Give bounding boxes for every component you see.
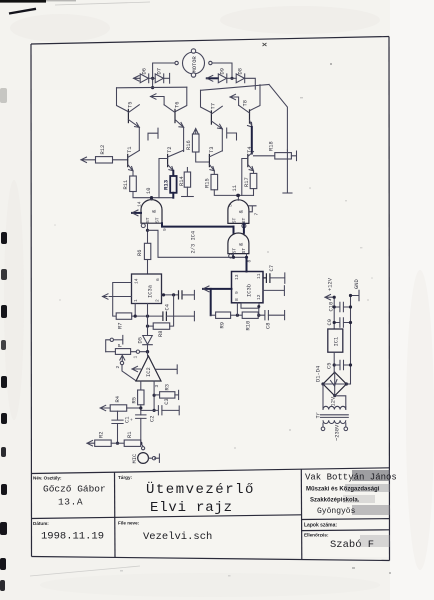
svg-text:1: 1 [133, 356, 139, 359]
stub bar right of mic [158, 454, 160, 462]
svg-text:T5: T5 [128, 102, 134, 108]
node right pin [162, 293, 165, 296]
gate B pin 7 stub [249, 206, 256, 212]
node ic3b pin riser [236, 314, 239, 317]
svg-text:R8: R8 [158, 331, 164, 337]
wire D7 to stub [164, 77, 170, 79]
capacitor C4 [163, 304, 171, 321]
svg-text:11: 11 [256, 273, 262, 279]
node diode left [151, 77, 154, 80]
wire IC1 to C5 node [333, 352, 335, 372]
mic right terminal [152, 457, 155, 460]
primary terminal left [321, 427, 325, 431]
arrow left of R12 [81, 157, 96, 162]
wire node to apex [147, 352, 149, 356]
transformer Tr [316, 396, 349, 423]
wire cap to stub [182, 294, 194, 296]
svg-text:Név. Osztály:: Név. Osztály: [33, 476, 62, 481]
svg-text:C7: C7 [269, 265, 275, 271]
potentiometer P [106, 344, 131, 362]
left bridge rail [117, 86, 187, 89]
wire T8 collector arrow [230, 94, 239, 105]
svg-text:D7: D7 [157, 68, 163, 74]
wire T7 emitter down [221, 129, 223, 151]
node rail left [151, 86, 154, 89]
wire D5 to opamp node [147, 345, 149, 352]
bus under IC3a [132, 315, 163, 317]
bridge rectifier D1-D4 [316, 366, 349, 397]
wire T4 to R18 [254, 155, 275, 157]
capacitor C8 [259, 311, 272, 330]
wire IC3b pin12 [263, 289, 284, 291]
svg-text:R15: R15 [204, 178, 210, 188]
wire R16 to T3 base [196, 152, 210, 162]
svg-text:Gőcző Gábor: Gőcző Gábor [43, 484, 106, 495]
wire R4 to chain [127, 407, 141, 409]
psu left rail [333, 297, 335, 329]
svg-text:R12: R12 [100, 145, 106, 155]
gate A top pin [151, 198, 153, 200]
svg-text:R3: R3 [165, 384, 171, 390]
wire IC3a left pin arrow [103, 294, 132, 299]
wire rail left drop right half [201, 90, 212, 112]
svg-text:5: 5 [228, 204, 234, 207]
svg-text:File neve:: File neve: [118, 521, 140, 526]
wire R14 to gnd stub [186, 187, 188, 196]
wire T5 emitter down [138, 127, 140, 150]
nand gate U4B [228, 200, 249, 224]
wire branch to right drop [148, 230, 247, 257]
svg-text:+: + [243, 234, 248, 237]
riser subbox [258, 308, 260, 315]
svg-text:C5: C5 [327, 363, 333, 369]
psu right rail [350, 296, 352, 385]
transistor T6 [164, 102, 184, 128]
wire T6 collector arrow [151, 94, 165, 105]
right bridge rail [201, 85, 270, 91]
node gate C out right [245, 256, 248, 259]
svg-text:R18: R18 [269, 141, 275, 151]
transistor T7 [211, 103, 223, 129]
svg-text:9: 9 [234, 291, 240, 294]
title block [31, 468, 397, 560]
stub inside left bridge [148, 128, 158, 140]
svg-text:R11: R11 [123, 180, 129, 190]
capacitor C4b [179, 290, 183, 299]
node under gate A [146, 229, 149, 232]
svg-text:2: 2 [115, 366, 121, 369]
svg-text:T7: T7 [211, 103, 217, 109]
bold arrow left of IC3b [203, 288, 232, 290]
svg-text:13.A: 13.A [58, 497, 83, 508]
drawing frame [31, 37, 390, 561]
wire D5 chain [147, 304, 149, 336]
svg-text:12V: 12V [331, 396, 337, 406]
node gate C out left [232, 256, 235, 259]
svg-text:ST: ST [154, 217, 160, 223]
frame left edge [30, 44, 33, 557]
stub bar right of C3 [178, 406, 180, 415]
wire to stub [114, 339, 123, 341]
gate A left arrow bold [132, 212, 141, 214]
svg-text:2: 2 [155, 299, 161, 302]
svg-text:R17: R17 [244, 177, 250, 187]
svg-text:Elvi rajz: Elvi rajz [150, 500, 233, 516]
svg-text:GND: GND [354, 279, 360, 289]
wire R9 to R10 [231, 314, 243, 316]
svg-text:14: 14 [133, 278, 139, 284]
stub bar pin12 [283, 286, 285, 296]
wire C1 down [117, 424, 119, 444]
node gnd [349, 294, 352, 297]
wire T8 emitter down bold [251, 127, 253, 154]
arrow left of D6 [134, 76, 141, 81]
svg-text:8: 8 [234, 298, 240, 301]
wire bridge to transformer right [335, 396, 346, 407]
node opamp top [146, 350, 149, 353]
wire long vertical over R18 [286, 150, 288, 193]
stub bar right of C7 [284, 273, 286, 283]
stub right of R18 [291, 151, 296, 161]
svg-text:D9: D9 [220, 68, 226, 74]
svg-text:Dátum:: Dátum: [33, 521, 49, 526]
wire T4 emitter to R17 [253, 171, 255, 174]
svg-text:C4: C4 [165, 304, 171, 310]
svg-text:D8: D8 [237, 68, 243, 74]
resistor R11 [123, 176, 137, 192]
wire T6 emitter down [183, 127, 185, 151]
wire D6-D7 [149, 77, 156, 79]
flip-flop IC3a [132, 274, 162, 304]
arrow above R16 [193, 129, 198, 135]
wire T4 base drop [242, 159, 248, 196]
svg-text:P: P [118, 344, 124, 347]
svg-text:R6: R6 [137, 250, 143, 256]
wire to R9 [211, 314, 216, 316]
svg-text:10: 10 [146, 188, 152, 194]
gate B top pin [237, 195, 239, 200]
svg-text:9: 9 [162, 228, 168, 231]
capacitor C7 [263, 265, 275, 283]
GND stub [351, 290, 360, 300]
svg-text:T1: T1 [127, 147, 133, 153]
primary leads [323, 423, 346, 427]
resistor R3 [154, 384, 175, 398]
wire gate B to gate C right [243, 223, 245, 233]
wire bridge right to rail [346, 383, 350, 385]
svg-text:ST: ST [145, 217, 151, 223]
svg-text:D6: D6 [141, 68, 147, 74]
IC3b sub box [241, 303, 259, 308]
wire motor right [212, 63, 232, 78]
terminal circle upper [110, 338, 113, 341]
svg-text:IC1: IC1 [334, 337, 340, 347]
arrow left of D9 [207, 77, 218, 79]
svg-text:C8: C8 [266, 323, 272, 329]
motor M [183, 49, 205, 77]
svg-text:MIC: MIC [132, 454, 138, 464]
svg-text:Lapok száma:: Lapok száma: [304, 523, 337, 529]
potentiometer P upper terminal [106, 340, 110, 352]
secondary leads [323, 407, 346, 410]
svg-text:D5: D5 [137, 337, 143, 343]
node 11 dot [236, 194, 239, 197]
mic terminal circle top [142, 447, 145, 450]
stub bar right of opamp [176, 365, 178, 374]
node +12 [333, 296, 336, 299]
opamp left arrow [132, 366, 141, 371]
svg-text:11: 11 [232, 185, 238, 191]
resistor R13 bold [163, 171, 177, 198]
divider name/subject [114, 472, 117, 557]
svg-text:Vak Bottyán János: Vak Bottyán János [305, 473, 397, 483]
capacitor C3 [154, 398, 170, 415]
node R4 chain [139, 406, 142, 409]
op-amp IC2 [136, 356, 161, 381]
svg-text:C9: C9 [327, 319, 333, 325]
svg-text:T8: T8 [242, 100, 248, 106]
node R8 left [146, 325, 149, 328]
resistor R16 [186, 134, 199, 152]
wire R3 to stub [175, 394, 179, 396]
svg-text:6: 6 [155, 278, 161, 281]
wire rail right drop [175, 87, 186, 111]
svg-text:R1: R1 [127, 432, 133, 438]
resistor R7 [116, 313, 132, 329]
transistor T3 [209, 147, 223, 171]
capacitor C10 [329, 302, 353, 312]
node 10 dot [150, 196, 153, 199]
stub bar right of R3 [178, 390, 180, 399]
resistor R5 [132, 390, 145, 405]
opamp right wire [156, 368, 177, 370]
capacitor C5 [327, 360, 353, 369]
node subbox [257, 305, 260, 308]
svg-text:IC2: IC2 [146, 367, 152, 377]
capacitor C2 [130, 415, 156, 422]
bold wire gate A to gates BC [162, 223, 234, 226]
wire wiper to opamp input [122, 365, 136, 381]
resistor R6 [137, 243, 151, 259]
svg-text:ST: ST [241, 217, 247, 223]
node diode right [230, 77, 233, 80]
svg-text:7: 7 [254, 213, 260, 216]
wire mic to stub [149, 457, 160, 459]
stub bar right of D7 [169, 73, 171, 83]
wire P to node [131, 351, 148, 353]
wire C3 to stub [162, 409, 179, 411]
svg-text:R16: R16 [186, 140, 192, 150]
svg-text:R4: R4 [115, 396, 121, 402]
frame bottom edge [32, 557, 390, 561]
transistor T4 [247, 147, 253, 171]
wire D8 to right rail [245, 78, 256, 89]
resistor R8 [153, 323, 170, 337]
wire motor left [153, 63, 175, 88]
resistor R2 [95, 432, 112, 447]
transistor T2 [167, 147, 184, 171]
+12V arrow [325, 295, 334, 300]
node R8 tap [172, 293, 175, 296]
resistor R18 [269, 141, 292, 159]
wire R15 to node 11 bus [214, 190, 253, 196]
transistor T1 [127, 147, 139, 171]
resistor R14 [179, 168, 191, 188]
wire C7 to stub [270, 277, 285, 279]
wire bridge to transformer left [322, 384, 324, 407]
svg-text:+: + [130, 418, 135, 421]
node D5 chain on bus [146, 315, 149, 318]
resistor R15 [204, 174, 217, 189]
arrow left of R4 [100, 405, 110, 410]
node R10 right [257, 314, 260, 317]
svg-text:Ellenőrzés:: Ellenőrzés: [304, 533, 329, 538]
svg-text:T3: T3 [209, 147, 215, 153]
wire C8 to stub [268, 314, 284, 316]
capacitor C9 [327, 318, 352, 327]
resistor R12 [96, 145, 113, 163]
motor left terminal [175, 61, 178, 64]
node C5 [333, 363, 336, 366]
wire R6 to IC3a [147, 260, 149, 275]
svg-text:1: 1 [133, 299, 139, 302]
node C1 bottom [116, 442, 119, 445]
nand gate U4A [141, 200, 162, 224]
svg-text:T2: T2 [167, 147, 173, 153]
wire C2 down [141, 418, 143, 446]
wire R8 left to D5 chain [148, 325, 154, 327]
svg-text:~230V: ~230V [335, 424, 341, 441]
svg-text:3: 3 [154, 385, 160, 388]
node R3 [153, 394, 156, 397]
svg-text:C1: C1 [125, 417, 131, 423]
wire R2 to R1 [111, 442, 124, 444]
node C3 [153, 409, 156, 412]
gnd stub under R14 [182, 196, 194, 198]
resistor R9 [216, 312, 231, 329]
wire opamp out down [140, 381, 142, 390]
svg-text:MOTOR: MOTOR [192, 56, 198, 73]
transistor T5 [128, 102, 140, 128]
svg-text:R2: R2 [99, 432, 105, 438]
wire T2 base drop [159, 159, 168, 198]
svg-text:Vezelvi.sch: Vezelvi.sch [143, 531, 212, 543]
gate C bottom stubs [234, 254, 247, 258]
wire R12 to T1 base [113, 159, 128, 161]
svg-text:2/3 IC4: 2/3 IC4 [191, 231, 197, 254]
resistor R4 [110, 396, 127, 411]
svg-text:ST: ST [232, 248, 238, 254]
arrow left of R2 [87, 441, 95, 446]
name/date divider [31, 515, 301, 519]
wire IC3a right pin [162, 294, 179, 296]
svg-text:13: 13 [234, 274, 240, 280]
flip-flop IC3b [232, 272, 264, 303]
svg-text:Tr: Tr [316, 412, 322, 418]
gate B output bubble [242, 224, 246, 228]
stub bar right of C8 [284, 311, 286, 320]
capacitor C1 [112, 417, 131, 424]
wire IC3a left loop to R7 [113, 283, 132, 317]
svg-text:R10: R10 [246, 321, 252, 331]
svg-text:14: 14 [137, 201, 143, 207]
bold wire to IC3b [246, 257, 248, 271]
wire D9-D8 [227, 77, 236, 79]
svg-text:D1-D4: D1-D4 [316, 366, 322, 382]
wire rail left drop [117, 88, 129, 112]
title block top border [31, 468, 390, 474]
resistor R17 [244, 173, 257, 188]
svg-text:Szabó F: Szabó F [330, 539, 374, 551]
stub bar bottom right vertical [283, 192, 292, 194]
wire R11 to node 10 bus [133, 192, 173, 198]
stub bar right of C4 [193, 311, 195, 320]
nand gate U4C [228, 233, 249, 254]
svg-text:T6: T6 [174, 102, 180, 108]
svg-text:Tárgy:: Tárgy: [118, 475, 133, 480]
svg-text:R13: R13 [163, 179, 170, 190]
node pin1 [134, 315, 137, 318]
svg-text:R5: R5 [132, 397, 138, 403]
riser pin1 [134, 304, 136, 317]
resistor R1 [124, 432, 141, 447]
motor right terminal [209, 61, 212, 64]
node mic junction [139, 442, 142, 445]
stub bar upper [193, 290, 195, 299]
wire R17 to node 11 bus [253, 189, 255, 196]
wire T3 emitter to R15 [213, 171, 215, 175]
wire T8 base drop [250, 85, 260, 111]
diode D7 [155, 68, 164, 83]
svg-text:Gyöngyös: Gyöngyös [317, 507, 356, 516]
stub inside right bridge [227, 128, 237, 140]
wire gate B to gate C left [233, 227, 235, 233]
bold drop to R9 [210, 289, 212, 315]
microphone MIC [132, 453, 149, 464]
wiper terminal circle [120, 361, 123, 364]
wire T1 emitter to R11 [132, 171, 134, 176]
svg-text:C2: C2 [150, 416, 156, 422]
wire gate A output down [147, 223, 149, 243]
svg-text:1998.11.19: 1998.11.19 [41, 531, 104, 543]
svg-text:IC3b: IC3b [247, 284, 253, 297]
svg-text:R9: R9 [220, 322, 226, 328]
svg-text:Ütemvezérlő: Ütemvezérlő [146, 480, 255, 498]
wire R5 down [140, 405, 142, 415]
lapok row top [301, 518, 390, 521]
riser C1 [117, 411, 119, 420]
primary terminal right [344, 427, 348, 431]
svg-text:T4: T4 [247, 147, 253, 153]
ellenorizte row top [301, 529, 390, 532]
gate C output bubble [229, 254, 233, 258]
resistor R10 [242, 312, 258, 331]
wire opamp pin to R3 node [153, 381, 155, 410]
transistor T8 [239, 100, 252, 127]
wire chain to C3 node [141, 409, 154, 411]
svg-text:R7: R7 [118, 323, 124, 329]
gate A output bubble [141, 224, 145, 228]
svg-text:Műszaki és Közgazdasági: Műszaki és Közgazdasági [306, 487, 380, 493]
school smudges [352, 470, 390, 481]
svg-text:12: 12 [256, 294, 262, 300]
wire R8 right up [170, 295, 174, 326]
svg-text:R14: R14 [179, 176, 185, 186]
svg-text:C3: C3 [164, 398, 170, 404]
svg-text:IC3a: IC3a [148, 284, 154, 298]
regulator IC1 [328, 329, 343, 352]
frame top edge [31, 37, 389, 45]
